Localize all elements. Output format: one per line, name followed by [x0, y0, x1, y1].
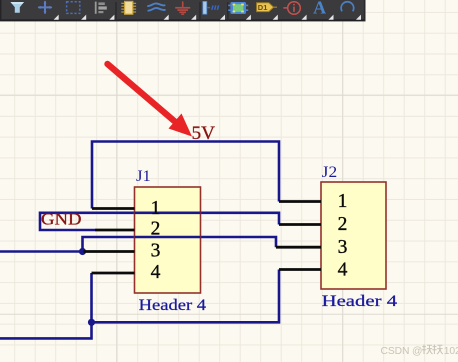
annotation arrow — [108, 64, 193, 137]
wire net4 branch to J2.4 — [92, 270, 280, 323]
toolbar dropdown triangles — [54, 15, 361, 20]
J1 pin 3 — [84, 250, 135, 253]
connector J2 body — [321, 182, 386, 289]
J2 pin 1 — [279, 200, 321, 203]
toolbar separator 1 — [115, 2, 117, 19]
J2 pin 2 — [279, 223, 321, 226]
wire net GND: J1.2 loop to J2.2 — [40, 213, 279, 230]
toolbar icon: align — [95, 2, 107, 14]
svg-text:Header 4: Header 4 — [322, 293, 398, 310]
J1 pin 4 — [92, 272, 135, 275]
toolbar icon: sheet symbol — [228, 2, 248, 14]
J2 pin 4 — [279, 268, 321, 271]
toolbar icon: arc — [341, 2, 354, 12]
svg-text:5V: 5V — [192, 124, 216, 144]
svg-text:J1: J1 — [136, 168, 151, 185]
svg-text:D1: D1 — [258, 3, 268, 12]
svg-text:Header 4: Header 4 — [139, 297, 207, 314]
svg-text:3: 3 — [151, 241, 161, 262]
svg-text:CSDN @: CSDN @ — [381, 346, 423, 357]
svg-text:3: 3 — [338, 237, 348, 258]
svg-text:A: A — [313, 0, 326, 18]
toolbar separator 2 — [199, 2, 201, 19]
J1 pin 2 — [95, 229, 135, 232]
svg-text:102: 102 — [444, 346, 458, 357]
toolbar icon: filter — [11, 2, 25, 13]
svg-text:2: 2 — [338, 214, 348, 235]
toolbar background — [0, 0, 366, 21]
J2 pin 3 — [276, 246, 321, 249]
wire net3 horizontal from left edge — [0, 237, 276, 252]
J1 pin 1 — [92, 207, 135, 210]
svg-text:1: 1 — [338, 191, 348, 212]
wire net3 over J1 — [135, 236, 201, 239]
svg-text:J2: J2 — [322, 164, 338, 181]
svg-text:4: 4 — [338, 260, 348, 281]
toolbar icon: no-ERC directive — [283, 2, 300, 15]
toolbar icon: place part (chip) — [121, 1, 136, 14]
toolbar separator 3 — [227, 2, 229, 19]
junction on net3 — [79, 248, 86, 255]
svg-text:4: 4 — [151, 262, 161, 283]
wire net 5V: J1.1 to J2.1 — [92, 142, 279, 209]
toolbar icon: ground — [175, 1, 190, 14]
toolbar icon: net identifier D1 — [257, 3, 277, 12]
toolbar icon: select region — [67, 2, 80, 14]
svg-text:2: 2 — [151, 219, 161, 240]
svg-text:1: 1 — [151, 198, 161, 219]
junction on net4 — [88, 319, 95, 326]
svg-text:GND: GND — [41, 210, 82, 229]
toolbar icon: place wire (waves) — [148, 3, 165, 10]
toolbar icon: move/cross — [38, 1, 53, 15]
wire net4: J1.4 down and left edge — [0, 273, 92, 338]
toolbar icon: part pins — [203, 1, 219, 14]
watermark — [381, 345, 458, 358]
wire GND over J1 — [135, 212, 201, 215]
connector J1 body — [135, 187, 201, 293]
